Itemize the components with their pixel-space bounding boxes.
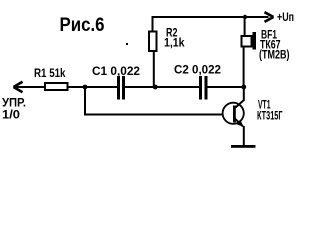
svg-text:(ТМ2В): (ТМ2В) (259, 48, 290, 62)
svg-text:C1 0,022: C1 0,022 (92, 64, 140, 78)
svg-text:R1 51k: R1 51k (34, 66, 66, 80)
svg-text:Рис.6: Рис.6 (60, 14, 105, 36)
svg-text:1,1k: 1,1k (164, 36, 185, 50)
svg-text:+Uп: +Uп (277, 10, 294, 24)
svg-text:1/0: 1/0 (2, 108, 20, 122)
svg-text:КТ315Г: КТ315Г (257, 109, 283, 123)
svg-text:C2 0,022: C2 0,022 (174, 63, 221, 77)
